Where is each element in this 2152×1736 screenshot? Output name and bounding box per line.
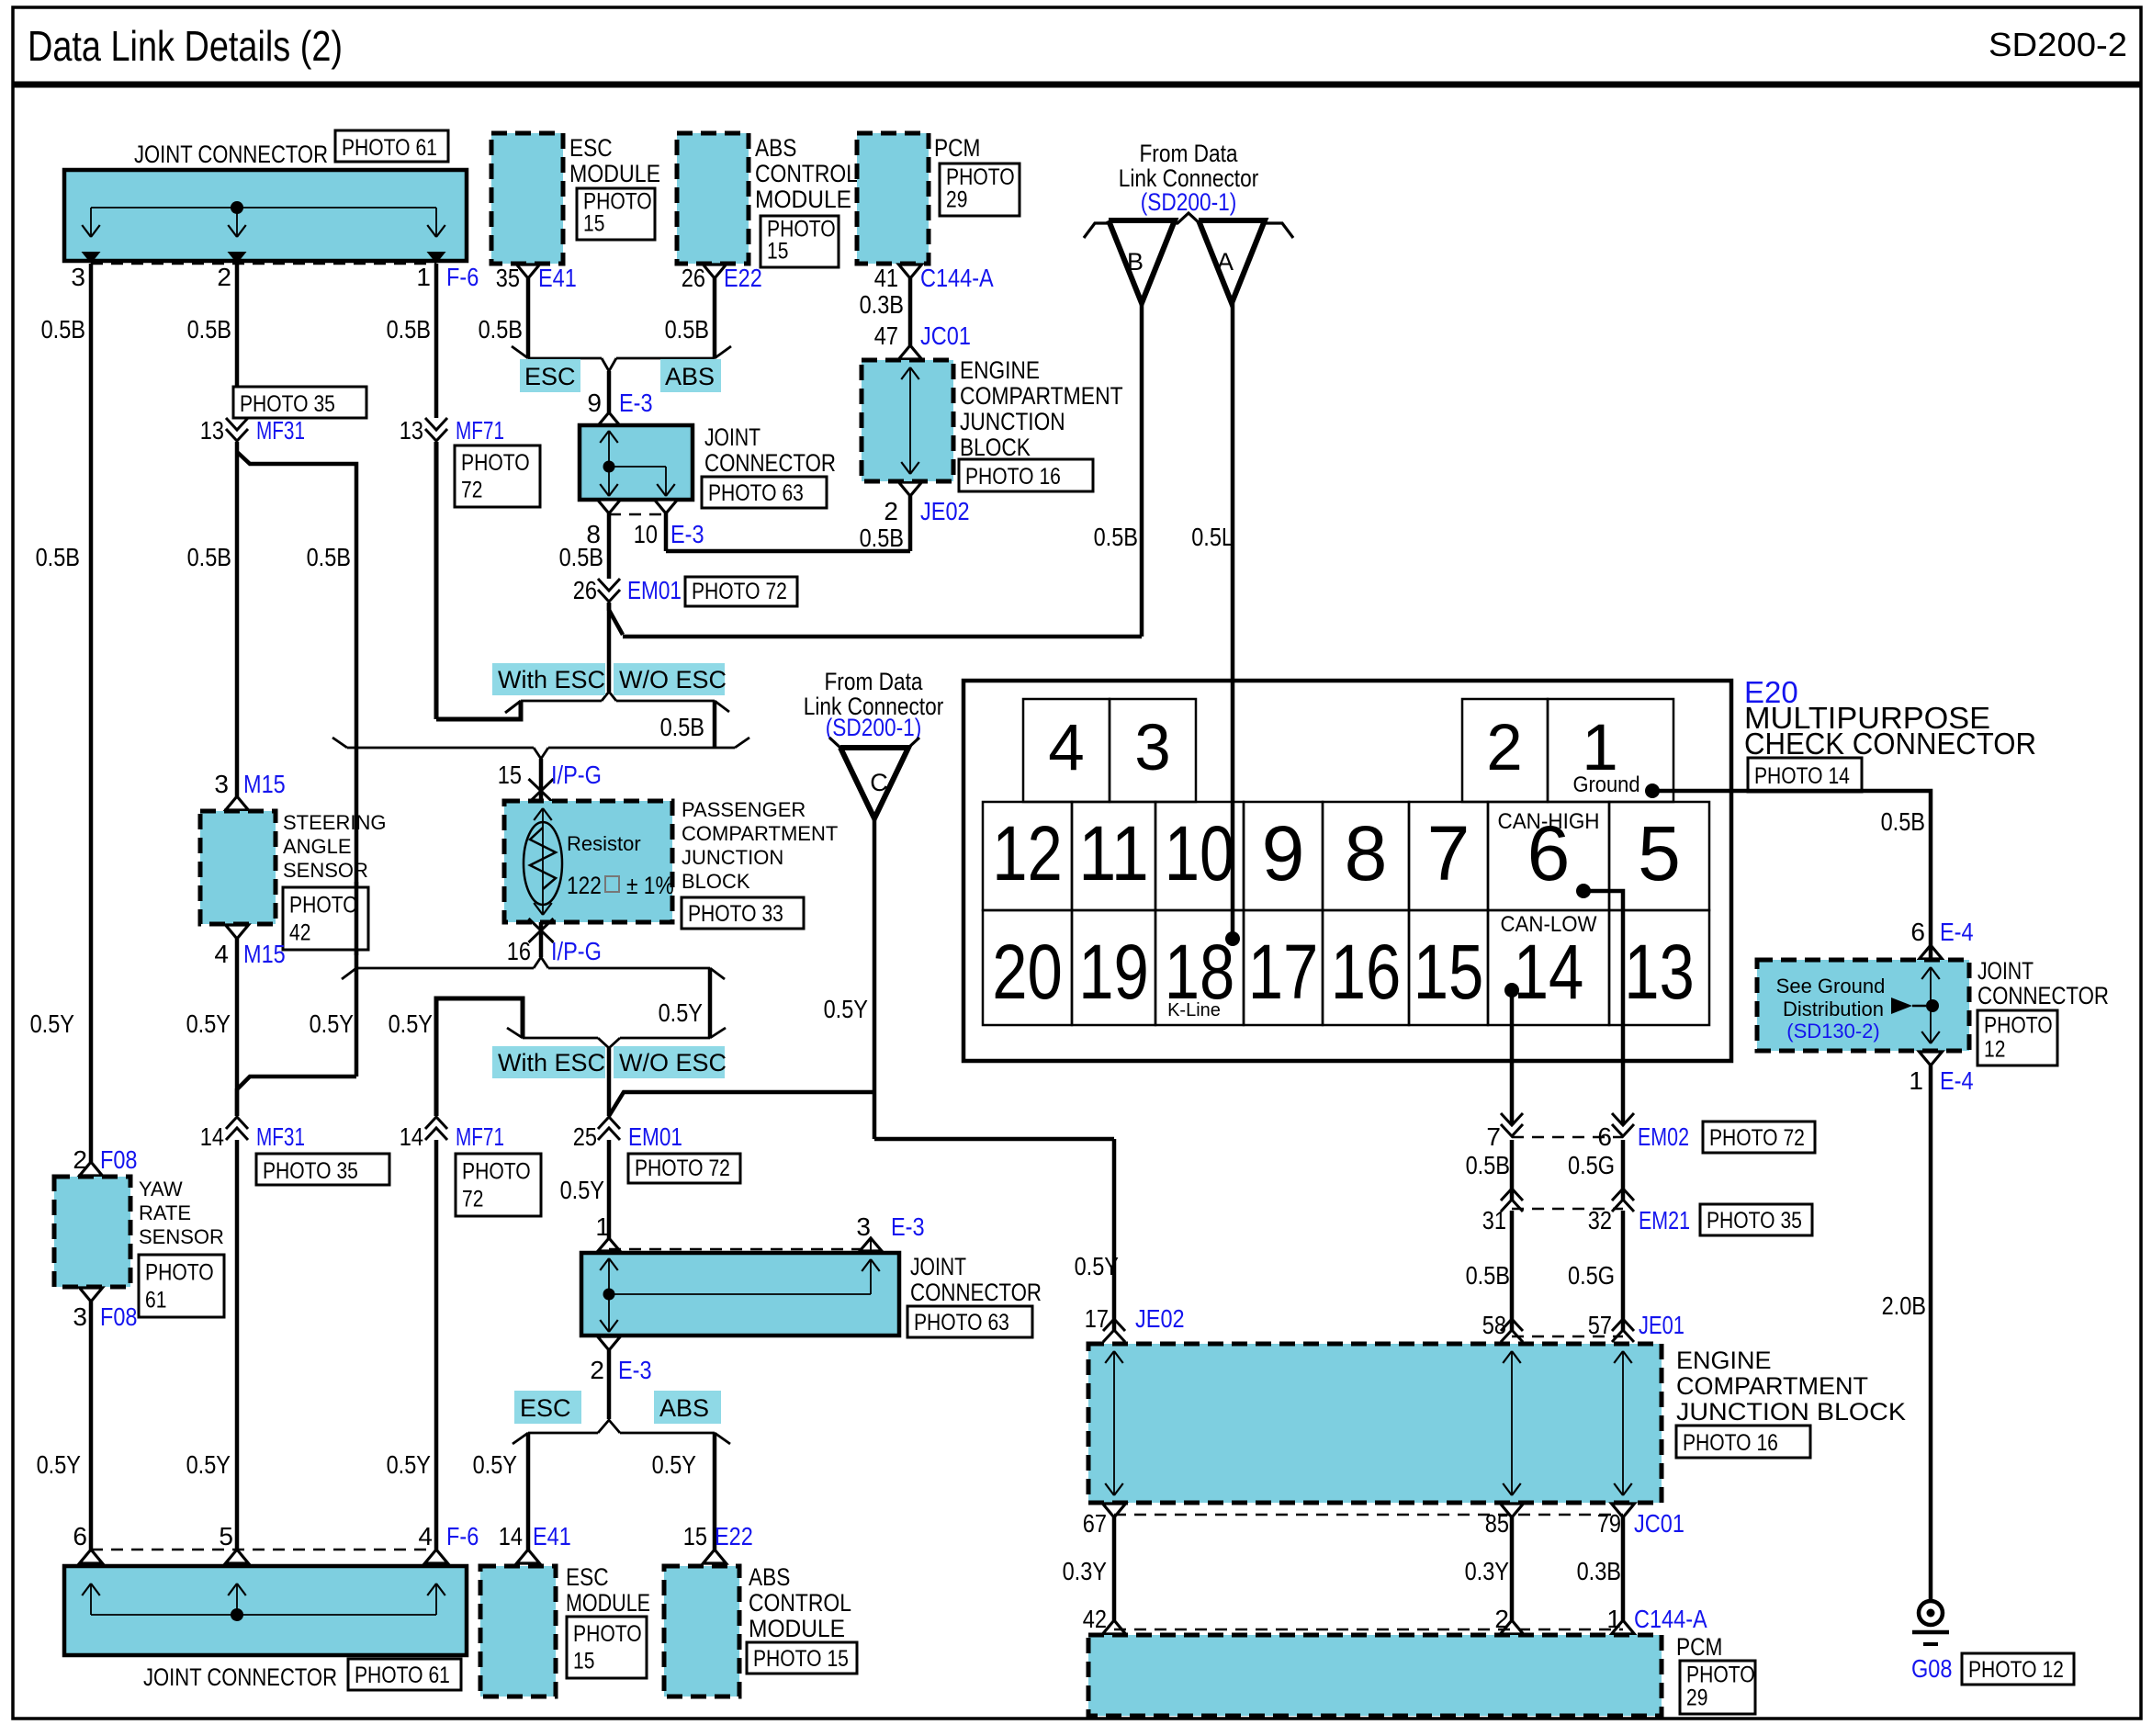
svg-text:0.5Y: 0.5Y bbox=[186, 1450, 231, 1479]
svg-text:0.5Y: 0.5Y bbox=[387, 1450, 432, 1479]
svg-text:6: 6 bbox=[1597, 1122, 1612, 1151]
svg-text:20: 20 bbox=[992, 929, 1063, 1015]
svg-text:0.5Y: 0.5Y bbox=[824, 995, 869, 1023]
svg-text:MODULE: MODULE bbox=[749, 1615, 845, 1642]
svg-text:13: 13 bbox=[200, 416, 224, 445]
svg-text:E-3: E-3 bbox=[619, 389, 653, 417]
svg-text:2: 2 bbox=[1486, 712, 1523, 784]
svg-text:E41: E41 bbox=[538, 264, 577, 292]
svg-text:CONNECTOR: CONNECTOR bbox=[1977, 982, 2109, 1009]
svg-text:0.3B: 0.3B bbox=[860, 290, 904, 319]
svg-text:0.5B: 0.5B bbox=[860, 524, 904, 552]
svg-text:47: 47 bbox=[874, 321, 898, 350]
svg-text:CONNECTOR: CONNECTOR bbox=[704, 449, 836, 477]
svg-text:0.5B: 0.5B bbox=[1094, 523, 1138, 551]
svg-text:4: 4 bbox=[214, 940, 229, 968]
svg-text:10: 10 bbox=[1165, 810, 1235, 896]
svg-text:0.5B: 0.5B bbox=[36, 543, 80, 571]
svg-text:42: 42 bbox=[1083, 1605, 1107, 1633]
svg-text:PHOTO: PHOTO bbox=[461, 450, 530, 476]
svg-text:0.3Y: 0.3Y bbox=[1465, 1557, 1510, 1585]
svg-text:COMPARTMENT: COMPARTMENT bbox=[682, 822, 838, 845]
svg-text:3: 3 bbox=[1134, 712, 1171, 784]
svg-text:PHOTO 61: PHOTO 61 bbox=[342, 135, 437, 161]
svg-text:CONNECTOR: CONNECTOR bbox=[910, 1279, 1042, 1306]
svg-text:JOINT: JOINT bbox=[1977, 957, 2034, 985]
svg-text:PCM: PCM bbox=[1676, 1633, 1722, 1661]
svg-text:17: 17 bbox=[1085, 1304, 1109, 1333]
svg-text:JOINT CONNECTOR: JOINT CONNECTOR bbox=[134, 141, 328, 168]
svg-text:57: 57 bbox=[1588, 1311, 1612, 1339]
svg-text:MF31: MF31 bbox=[256, 416, 305, 445]
svg-text:SD200-2: SD200-2 bbox=[1989, 26, 2127, 63]
svg-text:BLOCK: BLOCK bbox=[960, 434, 1031, 461]
svg-text:15: 15 bbox=[683, 1522, 707, 1550]
svg-text:PCM: PCM bbox=[934, 134, 980, 162]
svg-text:ESC: ESC bbox=[520, 1394, 571, 1422]
svg-text:EM01: EM01 bbox=[628, 1122, 682, 1151]
svg-text:CAN-HIGH: CAN-HIGH bbox=[1498, 809, 1600, 834]
svg-text:JUNCTION: JUNCTION bbox=[960, 408, 1065, 435]
svg-text:PHOTO 14: PHOTO 14 bbox=[1754, 763, 1850, 789]
svg-text:0.5Y: 0.5Y bbox=[473, 1450, 518, 1479]
svg-text:72: 72 bbox=[462, 1186, 483, 1212]
svg-text:ENGINE: ENGINE bbox=[960, 356, 1040, 384]
svg-text:PHOTO 35: PHOTO 35 bbox=[240, 391, 335, 417]
svg-text:9: 9 bbox=[587, 389, 602, 417]
svg-text:14: 14 bbox=[499, 1522, 523, 1550]
svg-text:58: 58 bbox=[1482, 1311, 1506, 1339]
svg-text:E-4: E-4 bbox=[1940, 1066, 1974, 1095]
svg-text:PHOTO: PHOTO bbox=[573, 1621, 642, 1647]
svg-text:PHOTO 72: PHOTO 72 bbox=[1709, 1125, 1805, 1151]
svg-text:26: 26 bbox=[573, 576, 597, 604]
svg-text:0.5Y: 0.5Y bbox=[310, 1009, 355, 1038]
svg-text:(SD130-2): (SD130-2) bbox=[1786, 1020, 1879, 1043]
svg-text:A: A bbox=[1217, 248, 1234, 276]
svg-text:14: 14 bbox=[1514, 929, 1584, 1015]
svg-text:PASSENGER: PASSENGER bbox=[682, 798, 806, 821]
svg-text:3: 3 bbox=[71, 263, 85, 291]
svg-text:4: 4 bbox=[1048, 712, 1085, 784]
svg-text:ENGINE: ENGINE bbox=[1676, 1347, 1772, 1374]
svg-text:E-4: E-4 bbox=[1940, 918, 1974, 946]
svg-text:15: 15 bbox=[498, 761, 522, 789]
svg-text:JE01: JE01 bbox=[1639, 1311, 1684, 1339]
svg-text:JE02: JE02 bbox=[920, 497, 970, 525]
svg-text:0.5G: 0.5G bbox=[1568, 1261, 1615, 1290]
svg-text:8: 8 bbox=[1345, 810, 1388, 896]
svg-text:0.5G: 0.5G bbox=[1568, 1151, 1615, 1179]
svg-text:72: 72 bbox=[461, 478, 482, 503]
svg-text:MF71: MF71 bbox=[456, 416, 504, 445]
svg-text:122: 122 bbox=[567, 872, 602, 899]
svg-text:K-Line: K-Line bbox=[1167, 1000, 1221, 1020]
svg-text:13: 13 bbox=[400, 416, 423, 445]
svg-text:PHOTO 61: PHOTO 61 bbox=[355, 1663, 450, 1688]
svg-text:5: 5 bbox=[1638, 810, 1681, 896]
svg-text:E22: E22 bbox=[724, 264, 762, 292]
svg-text:YAW: YAW bbox=[139, 1178, 183, 1201]
svg-text:Data Link Details (2): Data Link Details (2) bbox=[28, 22, 343, 70]
svg-text:CAN-LOW: CAN-LOW bbox=[1501, 912, 1597, 937]
svg-text:E-3: E-3 bbox=[670, 520, 704, 548]
svg-text:16: 16 bbox=[507, 937, 531, 965]
svg-text:JOINT: JOINT bbox=[910, 1253, 966, 1280]
svg-text:3: 3 bbox=[214, 770, 229, 798]
svg-text:JUNCTION BLOCK: JUNCTION BLOCK bbox=[1676, 1398, 1906, 1426]
svg-text:± 1%: ± 1% bbox=[626, 872, 674, 899]
svg-text:JC01: JC01 bbox=[1634, 1509, 1684, 1538]
svg-text:17: 17 bbox=[1248, 929, 1319, 1015]
svg-text:F-6: F-6 bbox=[446, 263, 479, 291]
svg-text:B: B bbox=[1127, 248, 1144, 276]
svg-text:35: 35 bbox=[496, 264, 520, 292]
svg-text:1: 1 bbox=[1909, 1066, 1923, 1095]
svg-text:0.5B: 0.5B bbox=[1881, 807, 1925, 836]
svg-text:12: 12 bbox=[1984, 1036, 2005, 1062]
svg-text:26: 26 bbox=[682, 264, 705, 292]
svg-text:ANGLE: ANGLE bbox=[283, 835, 352, 858]
svg-text:See Ground: See Ground bbox=[1776, 975, 1886, 998]
svg-text:C144-A: C144-A bbox=[920, 264, 994, 292]
svg-text:MODULE: MODULE bbox=[569, 160, 660, 187]
svg-text:PHOTO 63: PHOTO 63 bbox=[708, 480, 804, 506]
svg-text:I/P-G: I/P-G bbox=[551, 761, 602, 789]
svg-text:1: 1 bbox=[416, 263, 431, 291]
svg-text:COMPARTMENT: COMPARTMENT bbox=[1676, 1372, 1868, 1400]
svg-text:C: C bbox=[870, 769, 888, 796]
svg-text:ABS: ABS bbox=[755, 134, 796, 162]
svg-text:0.5B: 0.5B bbox=[387, 315, 431, 344]
svg-text:E41: E41 bbox=[533, 1522, 571, 1550]
svg-text:PHOTO: PHOTO bbox=[1984, 1012, 2053, 1038]
svg-text:0.5Y: 0.5Y bbox=[659, 998, 704, 1027]
svg-text:15: 15 bbox=[573, 1649, 594, 1674]
svg-text:G08: G08 bbox=[1911, 1654, 1953, 1683]
svg-text:MODULE: MODULE bbox=[566, 1589, 650, 1617]
svg-text:SENSOR: SENSOR bbox=[139, 1225, 224, 1248]
svg-text:15: 15 bbox=[583, 211, 604, 237]
svg-text:EM21: EM21 bbox=[1639, 1206, 1690, 1234]
svg-text:5: 5 bbox=[219, 1522, 233, 1550]
svg-text:4: 4 bbox=[418, 1522, 433, 1550]
svg-text:PHOTO: PHOTO bbox=[289, 892, 358, 918]
svg-text:M15: M15 bbox=[243, 940, 286, 968]
svg-text:BLOCK: BLOCK bbox=[682, 870, 750, 893]
svg-text:3: 3 bbox=[73, 1302, 87, 1331]
svg-text:29: 29 bbox=[1686, 1685, 1707, 1711]
svg-text:EM02: EM02 bbox=[1638, 1122, 1689, 1151]
svg-text:61: 61 bbox=[145, 1287, 166, 1313]
svg-text:F08: F08 bbox=[100, 1302, 138, 1331]
svg-text:11: 11 bbox=[1078, 810, 1149, 896]
svg-text:STEERING: STEERING bbox=[283, 811, 386, 834]
svg-text:0.5Y: 0.5Y bbox=[186, 1009, 231, 1038]
svg-text:0.5Y: 0.5Y bbox=[560, 1176, 605, 1204]
svg-text:67: 67 bbox=[1083, 1509, 1107, 1538]
svg-text:25: 25 bbox=[573, 1122, 597, 1151]
svg-text:PHOTO 72: PHOTO 72 bbox=[635, 1155, 730, 1181]
svg-text:JUNCTION: JUNCTION bbox=[682, 846, 783, 869]
svg-text:2: 2 bbox=[217, 263, 231, 291]
svg-text:85: 85 bbox=[1485, 1509, 1509, 1538]
svg-text:0.5B: 0.5B bbox=[41, 315, 85, 344]
svg-text:E-3: E-3 bbox=[618, 1356, 652, 1384]
svg-text:PHOTO: PHOTO bbox=[1686, 1663, 1755, 1688]
svg-text:32: 32 bbox=[1588, 1206, 1612, 1234]
svg-text:0.5L: 0.5L bbox=[1191, 523, 1234, 551]
svg-text:19: 19 bbox=[1078, 929, 1149, 1015]
svg-text:3: 3 bbox=[856, 1212, 871, 1241]
svg-text:ABS: ABS bbox=[665, 363, 715, 390]
svg-text:14: 14 bbox=[200, 1122, 224, 1151]
svg-text:6: 6 bbox=[1910, 918, 1925, 946]
svg-text:0.3B: 0.3B bbox=[1577, 1557, 1621, 1585]
svg-text:12: 12 bbox=[992, 810, 1063, 896]
svg-text:I/P-G: I/P-G bbox=[551, 937, 602, 965]
svg-text:MODULE: MODULE bbox=[755, 186, 851, 213]
svg-text:10: 10 bbox=[634, 520, 658, 548]
svg-text:PHOTO 72: PHOTO 72 bbox=[692, 579, 787, 604]
svg-text:2: 2 bbox=[590, 1356, 604, 1384]
svg-text:CHECK CONNECTOR: CHECK CONNECTOR bbox=[1744, 727, 2036, 761]
svg-text:M15: M15 bbox=[243, 770, 286, 798]
svg-text:9: 9 bbox=[1262, 810, 1305, 896]
svg-text:79: 79 bbox=[1597, 1509, 1621, 1538]
svg-text:PHOTO 63: PHOTO 63 bbox=[914, 1310, 1009, 1336]
svg-text:0.5B: 0.5B bbox=[187, 315, 231, 344]
svg-text:PHOTO 35: PHOTO 35 bbox=[263, 1158, 358, 1184]
svg-text:Ground: Ground bbox=[1573, 772, 1640, 797]
svg-text:(SD200-1): (SD200-1) bbox=[826, 714, 922, 741]
svg-text:W/O ESC: W/O ESC bbox=[619, 1049, 727, 1077]
svg-text:41: 41 bbox=[874, 264, 898, 292]
svg-text:0.5B: 0.5B bbox=[660, 713, 704, 741]
svg-text:8: 8 bbox=[586, 520, 601, 548]
svg-text:JE02: JE02 bbox=[1135, 1304, 1185, 1333]
svg-text:With ESC: With ESC bbox=[498, 666, 605, 693]
svg-text:6: 6 bbox=[73, 1522, 87, 1550]
svg-text:JOINT: JOINT bbox=[704, 423, 761, 451]
svg-text:0.5Y: 0.5Y bbox=[30, 1009, 75, 1038]
svg-text:JC01: JC01 bbox=[920, 321, 971, 350]
svg-text:0.5B: 0.5B bbox=[1466, 1151, 1510, 1179]
svg-text:From Data: From Data bbox=[824, 668, 923, 695]
svg-text:42: 42 bbox=[289, 919, 310, 945]
svg-text:From Data: From Data bbox=[1139, 140, 1238, 167]
svg-text:0.5B: 0.5B bbox=[479, 315, 523, 344]
svg-text:Distribution: Distribution bbox=[1783, 998, 1884, 1020]
svg-text:7: 7 bbox=[1427, 810, 1470, 896]
svg-text:1: 1 bbox=[1606, 1605, 1621, 1633]
svg-text:0.5B: 0.5B bbox=[187, 543, 231, 571]
svg-text:CONTROL: CONTROL bbox=[755, 160, 858, 187]
svg-text:2: 2 bbox=[1494, 1605, 1509, 1633]
svg-text:13: 13 bbox=[1624, 929, 1695, 1015]
svg-text:CONTROL: CONTROL bbox=[749, 1589, 851, 1617]
svg-text:MF71: MF71 bbox=[456, 1122, 504, 1151]
svg-text:PHOTO: PHOTO bbox=[145, 1259, 214, 1285]
svg-text:ESC: ESC bbox=[524, 363, 576, 390]
svg-text:15: 15 bbox=[767, 239, 788, 265]
svg-text:ESC: ESC bbox=[569, 134, 613, 162]
svg-text:PHOTO 16: PHOTO 16 bbox=[1683, 1430, 1778, 1456]
svg-text:0.5B: 0.5B bbox=[1466, 1261, 1510, 1290]
svg-text:31: 31 bbox=[1482, 1206, 1506, 1234]
svg-text:PHOTO 33: PHOTO 33 bbox=[688, 901, 783, 927]
svg-text:29: 29 bbox=[946, 187, 967, 213]
svg-text:15: 15 bbox=[1414, 929, 1484, 1015]
svg-text:F08: F08 bbox=[100, 1145, 138, 1174]
svg-text:ABS: ABS bbox=[749, 1563, 790, 1591]
svg-text:COMPARTMENT: COMPARTMENT bbox=[960, 382, 1123, 410]
svg-text:PHOTO 15: PHOTO 15 bbox=[753, 1646, 849, 1672]
svg-text:With ESC: With ESC bbox=[498, 1049, 605, 1077]
svg-text:0.5B: 0.5B bbox=[307, 543, 351, 571]
svg-text:PHOTO: PHOTO bbox=[462, 1158, 531, 1184]
svg-text:ABS: ABS bbox=[659, 1394, 709, 1422]
svg-text:7: 7 bbox=[1486, 1122, 1501, 1151]
svg-text:ESC: ESC bbox=[566, 1563, 609, 1591]
svg-text:0.5B: 0.5B bbox=[665, 315, 709, 344]
svg-text:EM01: EM01 bbox=[627, 576, 682, 604]
svg-text:E-3: E-3 bbox=[891, 1212, 925, 1241]
svg-text:SENSOR: SENSOR bbox=[283, 859, 368, 882]
svg-text:PHOTO 35: PHOTO 35 bbox=[1707, 1208, 1802, 1234]
svg-text:2: 2 bbox=[884, 497, 898, 525]
svg-text:0.5Y: 0.5Y bbox=[652, 1450, 697, 1479]
svg-text:E22: E22 bbox=[715, 1522, 753, 1550]
svg-text:Resistor: Resistor bbox=[567, 832, 641, 855]
svg-text:2.0B: 2.0B bbox=[1882, 1291, 1926, 1320]
svg-text:RATE: RATE bbox=[139, 1201, 191, 1224]
svg-text:14: 14 bbox=[400, 1122, 423, 1151]
svg-text:PHOTO 16: PHOTO 16 bbox=[965, 464, 1061, 490]
svg-text:PHOTO 12: PHOTO 12 bbox=[1968, 1657, 2064, 1683]
svg-text:16: 16 bbox=[1331, 929, 1402, 1015]
svg-text:1: 1 bbox=[595, 1212, 610, 1241]
svg-text:W/O ESC: W/O ESC bbox=[619, 666, 727, 693]
svg-text:C144-A: C144-A bbox=[1634, 1605, 1707, 1633]
svg-text:JOINT CONNECTOR: JOINT CONNECTOR bbox=[143, 1663, 337, 1691]
svg-text:0.3Y: 0.3Y bbox=[1063, 1557, 1108, 1585]
svg-text:0.5Y: 0.5Y bbox=[37, 1450, 82, 1479]
svg-text:MF31: MF31 bbox=[256, 1122, 305, 1151]
svg-text:F-6: F-6 bbox=[446, 1522, 479, 1550]
svg-text:0.5Y: 0.5Y bbox=[389, 1009, 434, 1038]
